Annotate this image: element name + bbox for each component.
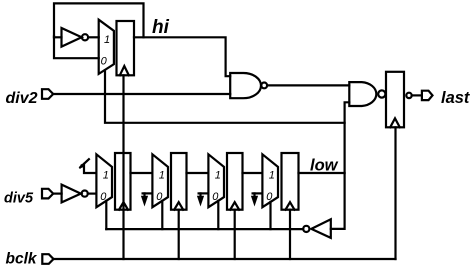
NAND gate U3 (349, 82, 385, 106)
wire: bclk rail (54, 258, 396, 260)
port flag bclk (42, 254, 53, 264)
mux M3 (152, 154, 168, 207)
flip-flop FF2 (115, 153, 131, 210)
wire: tag stub to mux M4 input 0 (199, 192, 209, 194)
wire: bclk riser to FF1 clock (122, 75, 124, 259)
wire: mux M1 select to node low (105, 70, 345, 123)
wire: global tag to mux M2 input 1 (84, 164, 96, 173)
clock wedge FF6 (390, 118, 400, 127)
flip-flop FF1 (117, 21, 135, 75)
wire: FF2 output to mux M3 input 1 (131, 172, 153, 174)
wire: hi feedback loop (top) (54, 3, 144, 37)
wire: FF6 output to port last (412, 94, 422, 96)
svg-text:1: 1 (104, 34, 110, 46)
global tag at mux M2 input 1 (79, 159, 89, 169)
svg-text:bclk: bclk (6, 251, 38, 268)
wire: tag stub to mux M3 input 0 (143, 192, 153, 194)
wire: inverter U5 output select rail (106, 228, 303, 230)
wire: bclk riser to FF4 clock (234, 210, 236, 259)
wire: node low to NAND U3 bottom input (331, 102, 350, 229)
wire: FF4 output to mux M5 input 1 (243, 172, 263, 174)
wire: mux M5 select to select rail (269, 202, 271, 229)
flip-flop FF5 (282, 153, 299, 210)
svg-text:low: low (310, 156, 339, 174)
svg-text:0: 0 (101, 55, 108, 67)
wire: mux M3 select to select rail (161, 201, 163, 229)
wire: bclk riser to FF6 clock (394, 127, 396, 259)
svg-text:1: 1 (269, 169, 275, 181)
output bubble FF6 (406, 93, 411, 98)
svg-text:1: 1 (215, 169, 221, 181)
wire: NAND U2 output to NAND U3 top input (267, 84, 349, 86)
mux M4 (208, 154, 224, 207)
wire: mux M2 select to select rail (105, 201, 107, 229)
wire: bclk riser to FF3 clock (178, 210, 180, 259)
wire: bclk riser to FF5 clock (289, 210, 291, 259)
svg-text:div2: div2 (6, 90, 38, 107)
flip-flop FF4 (227, 153, 243, 210)
wire: div2 to NAND U2 bottom input (53, 93, 230, 95)
wire: mux M4 select to select rail (217, 201, 219, 229)
port flag div2 (42, 89, 53, 99)
inverter U4 (62, 185, 88, 203)
clock wedge FF5 (286, 202, 295, 210)
port flag div5 (42, 189, 53, 199)
mux M2 (96, 154, 112, 207)
wire: hi to NAND U2 top input (134, 37, 230, 76)
inverter U1 (62, 28, 89, 47)
svg-text:1: 1 (159, 169, 165, 181)
wire: FF5 output (low) (299, 172, 345, 174)
clock wedge FF2 (119, 202, 128, 210)
svg-text:last: last (441, 89, 471, 107)
port flag last (422, 91, 433, 100)
NAND gate U2 (230, 73, 267, 98)
global tag arrow at mux M4 input 0 (197, 193, 204, 206)
wire: tag stub to mux M5 input 0 (253, 192, 263, 194)
wire: inverter U4 output to mux M2 input 0 (88, 193, 97, 195)
wire: FF3 output to mux M4 input 1 (187, 172, 209, 174)
mux M5 (262, 154, 278, 207)
clock wedge FF4 (230, 202, 239, 210)
global tag arrow at mux M5 input 0 (251, 193, 258, 206)
wire: inverter U1 input (54, 36, 62, 38)
clock wedge FF3 (174, 202, 183, 210)
wire: feedback to mux M1 input 0 (54, 36, 99, 58)
svg-text:hi: hi (152, 17, 170, 38)
mux M1 (99, 20, 114, 74)
inverter U5 (low feedback) (303, 219, 331, 238)
flip-flop FF3 (171, 153, 187, 210)
svg-text:1: 1 (103, 169, 109, 181)
wire: div5 to inverter U4 input (53, 193, 61, 195)
flip-flop FF6 (last) (386, 72, 404, 128)
wire: inverter U1 output to mux M1 input 1 (88, 36, 99, 38)
clock wedge FF1 (120, 66, 129, 75)
global tag arrow at mux M3 input 0 (141, 193, 148, 206)
svg-text:div5: div5 (4, 190, 34, 206)
